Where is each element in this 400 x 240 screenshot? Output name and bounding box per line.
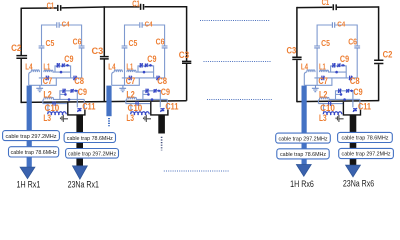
capacitor C2 plates (block 6 right) <box>374 60 383 63</box>
capacitor C1 plates (block 6) <box>333 4 336 10</box>
svg-text:cable trap 78.6MHz: cable trap 78.6MHz <box>280 152 326 158</box>
wire: L3 branch <box>47 104 49 115</box>
wire: 23Na rail with L2 <box>127 97 167 99</box>
capacitor C4 plates <box>57 22 59 27</box>
node: 1H rail junction <box>143 71 146 74</box>
wire: C10 rail <box>126 103 151 105</box>
node: L3 coil joints <box>51 114 53 116</box>
wire: stub to junction dot <box>143 93 148 95</box>
wire: L4 elbow down to coax <box>304 72 307 85</box>
cable trap box (1H Rx1, 78.6MHz) <box>9 147 59 157</box>
svg-text:C4: C4 <box>337 19 345 28</box>
capacitor C4 plates <box>140 22 142 27</box>
svg-text:L3: L3 <box>43 113 51 123</box>
capacitor C5 plates <box>122 46 128 48</box>
node: 23Na rail junction <box>151 98 154 101</box>
wire: top conductor blocks 1-2 <box>21 7 186 9</box>
arrowhead 23Na Rx6 <box>346 165 361 177</box>
svg-text:C3: C3 <box>287 45 297 55</box>
trimmer capacitor (23Na second) <box>70 89 72 93</box>
svg-text:23Na Rx1: 23Na Rx1 <box>68 179 99 189</box>
ground (1H shield) <box>119 85 126 91</box>
svg-text:C10: C10 <box>45 103 60 113</box>
23Na Rx6 coax shaft <box>350 115 357 166</box>
node: 23Na box junction <box>64 93 67 96</box>
capacitor C10 plates <box>53 101 55 106</box>
trimmer capacitor C9 (1H) <box>139 63 141 68</box>
trimmer capacitor (1H second) <box>337 64 339 68</box>
svg-text:L3: L3 <box>126 113 134 123</box>
wire: L4 elbow down to coax <box>29 72 32 85</box>
wire: 1H rail with L4 and L1 <box>307 70 315 72</box>
capacitor C4 plates <box>332 22 334 27</box>
wire: bottom conductor blocks 1-2 <box>21 101 186 103</box>
capacitor C11 trimmer plates <box>353 108 357 112</box>
capacitor C3 plates (block 6 left) <box>292 57 301 59</box>
wire: inner loop left vertical <box>41 25 43 86</box>
wire: bottom conductor block 6 <box>297 101 379 102</box>
wire: C9 tuning box (1H) <box>331 66 347 78</box>
wire: left vertical (block 1) <box>20 8 22 104</box>
wire: C9 tuning box (23Na) <box>336 91 353 108</box>
cable trap box (23Na Rx1, 297.2MHz) <box>66 149 119 159</box>
ellipsis dotted line (top) <box>200 20 270 22</box>
wire: C9 tuning box (1H) <box>138 66 154 78</box>
wire: 23Na coax elbow <box>151 102 168 115</box>
svg-text:C6: C6 <box>73 37 82 46</box>
node: L3 coil joints <box>134 114 136 116</box>
ground (23Na coax shield, gray) <box>61 115 69 122</box>
wire: inner loop left vertical <box>316 25 318 86</box>
svg-text:L2: L2 <box>319 89 327 99</box>
wire: inner loop right vertical <box>356 25 358 78</box>
wire: L4 elbow down to coax <box>112 72 115 85</box>
ground (1H shield) <box>36 85 43 91</box>
capacitor C11 trimmer plates <box>77 108 81 112</box>
svg-text:C10: C10 <box>128 103 143 113</box>
svg-text:cable trap 78.6MHz: cable trap 78.6MHz <box>341 136 388 142</box>
wire: coax-ground rail <box>29 78 57 85</box>
trimmer capacitor (23Na second) <box>346 89 348 93</box>
capacitor C10 plates <box>136 101 138 106</box>
node: L3 coil joints <box>326 114 328 116</box>
svg-text:cable trap 297.2MHz: cable trap 297.2MHz <box>68 152 116 158</box>
wire: C9 tuning box (1H) <box>55 66 71 78</box>
capacitor C5 plates <box>314 46 320 48</box>
svg-text:C7: C7 <box>318 76 327 86</box>
ground (23Na coax shield, gray) <box>336 115 344 122</box>
wire: right vertical (block 2) <box>186 6 188 101</box>
ground (23Na coax shield, gray) <box>144 115 152 122</box>
svg-text:C2: C2 <box>383 49 393 59</box>
svg-text:L3: L3 <box>319 113 327 123</box>
trimmer capacitor C9 (23Na) <box>62 89 64 93</box>
capacitor C2 plates (block 1 left) <box>16 56 27 59</box>
svg-text:C6: C6 <box>348 37 357 46</box>
cable trap box (1H Rx1, 297.2MHz) <box>3 131 60 141</box>
svg-text:cable trap 297.2MHz: cable trap 297.2MHz <box>6 134 57 140</box>
svg-text:C9: C9 <box>64 54 73 64</box>
svg-text:C9: C9 <box>161 87 170 97</box>
arrowhead 23Na Rx1 <box>73 166 88 179</box>
svg-text:L1: L1 <box>126 63 133 72</box>
ellipsis dotted line (middle) <box>204 61 271 63</box>
svg-text:C5: C5 <box>129 39 138 48</box>
svg-text:C8: C8 <box>350 76 360 86</box>
capacitor C1 plates (block 1) <box>58 5 61 11</box>
wire: 23Na coax elbow <box>343 102 360 115</box>
svg-text:C9: C9 <box>353 87 362 97</box>
capacitor C6 plates <box>162 46 168 48</box>
outer loop block 6 (black) <box>292 4 383 102</box>
svg-text:cable trap 78.6MHz: cable trap 78.6MHz <box>11 150 57 156</box>
svg-text:C1: C1 <box>322 0 330 7</box>
trimmer capacitor C9 (23Na) <box>145 89 147 93</box>
node: 1H rail junction <box>335 71 338 74</box>
ellipsis dotted line (bottom) <box>164 170 230 172</box>
wire: inner loop right vertical <box>164 25 166 78</box>
wire: C11 drop from 23Na rail <box>83 99 85 109</box>
wire: top conductor block 6 <box>297 6 379 9</box>
capacitor C7 trimmer plates <box>129 76 133 81</box>
coil unit 1 inner circuit (C4-C11, L1-L4) <box>25 19 95 123</box>
svg-text:C7: C7 <box>43 76 52 86</box>
svg-text:1H Rx1: 1H Rx1 <box>17 180 41 190</box>
outer loop blocks 1+2 (black) <box>16 4 191 103</box>
node: 23Na rail junction <box>68 98 71 101</box>
svg-text:C4: C4 <box>62 19 70 28</box>
svg-text:C5: C5 <box>46 39 55 48</box>
svg-text:cable trap 297.2MHz: cable trap 297.2MHz <box>342 152 391 158</box>
inductor L3 coil <box>131 112 150 114</box>
wire: C10 rail <box>43 103 68 105</box>
svg-text:C6: C6 <box>156 37 165 46</box>
capacitor C6 plates <box>79 46 85 48</box>
svg-text:C2: C2 <box>11 43 21 53</box>
ellipsis below 1H Rx2 shaft <box>108 118 110 126</box>
trimmer capacitor (23Na second) <box>153 89 155 93</box>
wire: L3 branch <box>130 104 132 115</box>
svg-text:C3: C3 <box>179 50 189 60</box>
svg-text:L2: L2 <box>43 89 51 99</box>
capacitor C1 plates (block 2) <box>141 4 144 10</box>
svg-text:C11: C11 <box>82 102 95 112</box>
svg-text:23Na Rx6: 23Na Rx6 <box>343 178 374 188</box>
wire: coax-ground rail <box>304 78 332 85</box>
trimmer capacitor C9 (1H) <box>56 63 58 68</box>
svg-text:C11: C11 <box>358 102 371 112</box>
wire: C11 drop from 23Na rail <box>166 99 168 109</box>
svg-text:C8: C8 <box>74 76 84 86</box>
wire: 1H rail with L4 and L1 <box>114 70 122 72</box>
node: 23Na box junction <box>340 93 343 96</box>
capacitor C3 plates (block 2 right) <box>182 61 191 63</box>
trimmer capacitor C9 (1H) <box>332 63 334 68</box>
capacitor C7 trimmer plates <box>321 76 325 81</box>
wire: C7/C8 rail <box>122 77 165 79</box>
coil unit 2 inner circuit (C4-C11, L1-L4 repeated) <box>108 19 178 123</box>
inductor L3 coil <box>48 112 67 114</box>
wire: right vertical (block 6) <box>378 6 380 101</box>
capacitor C8 trimmer plates <box>73 76 77 81</box>
wire: C10 rail <box>318 103 343 105</box>
1H Rx6 coax shaft <box>302 86 307 165</box>
wire: C7/C8 rail <box>39 77 82 79</box>
wire: C7/C8 rail <box>314 77 357 79</box>
cable trap box (23Na Rx6, 297.2MHz) <box>339 148 394 158</box>
svg-text:C9: C9 <box>340 54 349 64</box>
svg-text:L1: L1 <box>319 63 326 72</box>
wire: coax-ground rail <box>112 78 140 85</box>
wire: inner loop top <box>125 24 165 26</box>
1H Rx2 coax shaft (truncated) <box>106 86 111 117</box>
svg-text:C5: C5 <box>321 39 330 48</box>
svg-text:cable trap 78.6MHz: cable trap 78.6MHz <box>67 136 113 142</box>
capacitor C7 trimmer plates <box>46 76 50 81</box>
trimmer capacitor (1H second) <box>144 64 146 68</box>
coil unit 6 inner circuit (C4-C11, L1-L4 repeated) <box>301 19 371 123</box>
23Na Rx1 coax shaft <box>76 115 83 167</box>
svg-text:L4: L4 <box>25 63 33 72</box>
wire: left vertical (block 6) <box>296 7 298 102</box>
wire: inner loop left vertical <box>124 25 126 86</box>
ground (1H shield) <box>312 85 319 91</box>
arrowhead 1H Rx6 <box>296 165 311 177</box>
ellipsis dotted line (lower) <box>207 99 273 101</box>
wire: L2 elbow to C10 rail <box>43 99 44 103</box>
wire: shared middle vertical <box>103 6 105 101</box>
trimmer capacitor (1H second) <box>61 64 63 68</box>
svg-text:C9: C9 <box>147 54 156 64</box>
capacitor C10 plates <box>329 101 331 106</box>
svg-text:L4: L4 <box>108 63 116 72</box>
capacitor C6 plates <box>354 46 360 48</box>
capacitor C11 trimmer plates <box>160 108 164 112</box>
wire: L2 elbow to C10 rail <box>126 99 127 103</box>
wire: C9 tuning box (23Na) <box>143 91 160 108</box>
svg-text:L4: L4 <box>301 63 309 72</box>
svg-text:C8: C8 <box>157 76 167 86</box>
capacitor C8 trimmer plates <box>349 76 353 81</box>
wire: stub to junction dot <box>336 93 341 95</box>
arrowhead 1H Rx1 <box>20 167 35 179</box>
svg-text:C1: C1 <box>132 0 140 8</box>
svg-text:L1: L1 <box>43 63 50 72</box>
wire: inner loop top <box>317 24 357 26</box>
wire: inner loop right vertical <box>81 25 83 78</box>
1H Rx1 coax shaft <box>27 86 32 168</box>
wire: 23Na coax elbow <box>68 102 85 115</box>
inductor L3 coil <box>323 112 342 114</box>
svg-text:C1: C1 <box>47 1 55 10</box>
wire: 23Na rail with L2 <box>44 97 84 99</box>
svg-text:C7: C7 <box>126 76 135 86</box>
capacitor C5 plates <box>39 46 45 48</box>
svg-text:C11: C11 <box>165 102 178 112</box>
wire: stub to junction dot <box>60 93 65 95</box>
cable trap box (1H Rx6, 297.2MHz) <box>276 133 331 143</box>
wire: 23Na rail with L2 <box>320 97 360 99</box>
wire: 1H rail with L4 and L1 <box>31 70 39 72</box>
node: 23Na box junction <box>147 93 150 96</box>
svg-text:C3: C3 <box>92 46 104 56</box>
wire: inner loop top <box>42 24 82 26</box>
capacitor C8 trimmer plates <box>156 76 160 81</box>
node: 23Na rail junction <box>343 98 346 101</box>
capacitor C3 plates (middle) <box>100 57 109 59</box>
wire: L2 elbow to C10 rail <box>318 99 319 103</box>
cable trap box (23Na Rx6, 78.6MHz) <box>338 132 393 142</box>
svg-text:C4: C4 <box>145 19 153 28</box>
wire: L3 branch <box>323 104 325 115</box>
node: 1H rail junction <box>60 71 63 74</box>
23Na Rx2 coax shaft (truncated) <box>158 115 165 134</box>
svg-text:1H Rx6: 1H Rx6 <box>290 179 314 189</box>
wire: C9 tuning box (23Na) <box>60 91 77 108</box>
svg-text:C10: C10 <box>320 103 335 113</box>
svg-text:C9: C9 <box>78 87 87 97</box>
svg-text:cable trap 297.2MHz: cable trap 297.2MHz <box>279 136 328 142</box>
cable trap box (1H Rx6, 78.6MHz) <box>277 149 329 159</box>
svg-text:L2: L2 <box>126 89 134 99</box>
cable trap box (23Na Rx1, 78.6MHz) <box>64 133 115 143</box>
ellipsis below 23Na Rx2 shaft <box>161 137 163 151</box>
trimmer capacitor C9 (23Na) <box>338 89 340 93</box>
wire: C11 drop from 23Na rail <box>359 99 361 109</box>
